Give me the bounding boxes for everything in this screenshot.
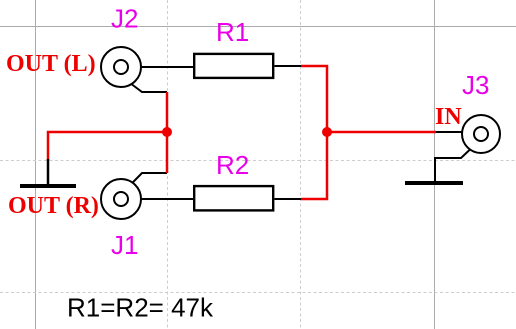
wire red vertical left bus (166, 92, 169, 173)
wire J3 tip black (435, 131, 474, 133)
svg-text:J2: J2 (111, 4, 138, 34)
wire J1 tip to R2 (128, 198, 193, 200)
wire J2 sleeve (131, 84, 167, 93)
wire R1 right black (275, 65, 302, 67)
connector J3 (462, 115, 500, 153)
svg-text:OUT (L): OUT (L) (6, 51, 96, 77)
wire red R2 corner (301, 132, 327, 199)
connector J1 (101, 179, 141, 219)
svg-text:OUT (R): OUT (R) (8, 193, 99, 219)
resistor R1 (194, 54, 273, 78)
connector J2 (101, 47, 141, 87)
wire J2 tip to R1 (128, 66, 193, 68)
wire J3 sleeve to ground (435, 150, 470, 182)
resistor R2 (194, 186, 273, 210)
svg-text:R1=R2= 47k: R1=R2= 47k (67, 293, 214, 323)
wire J1 sleeve (131, 173, 167, 185)
svg-text:J1: J1 (111, 230, 138, 260)
svg-text:J3: J3 (462, 70, 489, 100)
ground right (405, 181, 463, 185)
junction node left (162, 127, 172, 137)
ground left (20, 159, 76, 186)
wire red to J3 (327, 131, 436, 134)
svg-text:IN: IN (435, 104, 462, 130)
wire R2 right black (275, 198, 302, 200)
wire red R1 corner (301, 66, 327, 132)
junction node right (322, 127, 332, 137)
wire red to left ground (48, 132, 167, 160)
svg-text:R2: R2 (216, 150, 249, 180)
svg-text:R1: R1 (216, 17, 249, 47)
